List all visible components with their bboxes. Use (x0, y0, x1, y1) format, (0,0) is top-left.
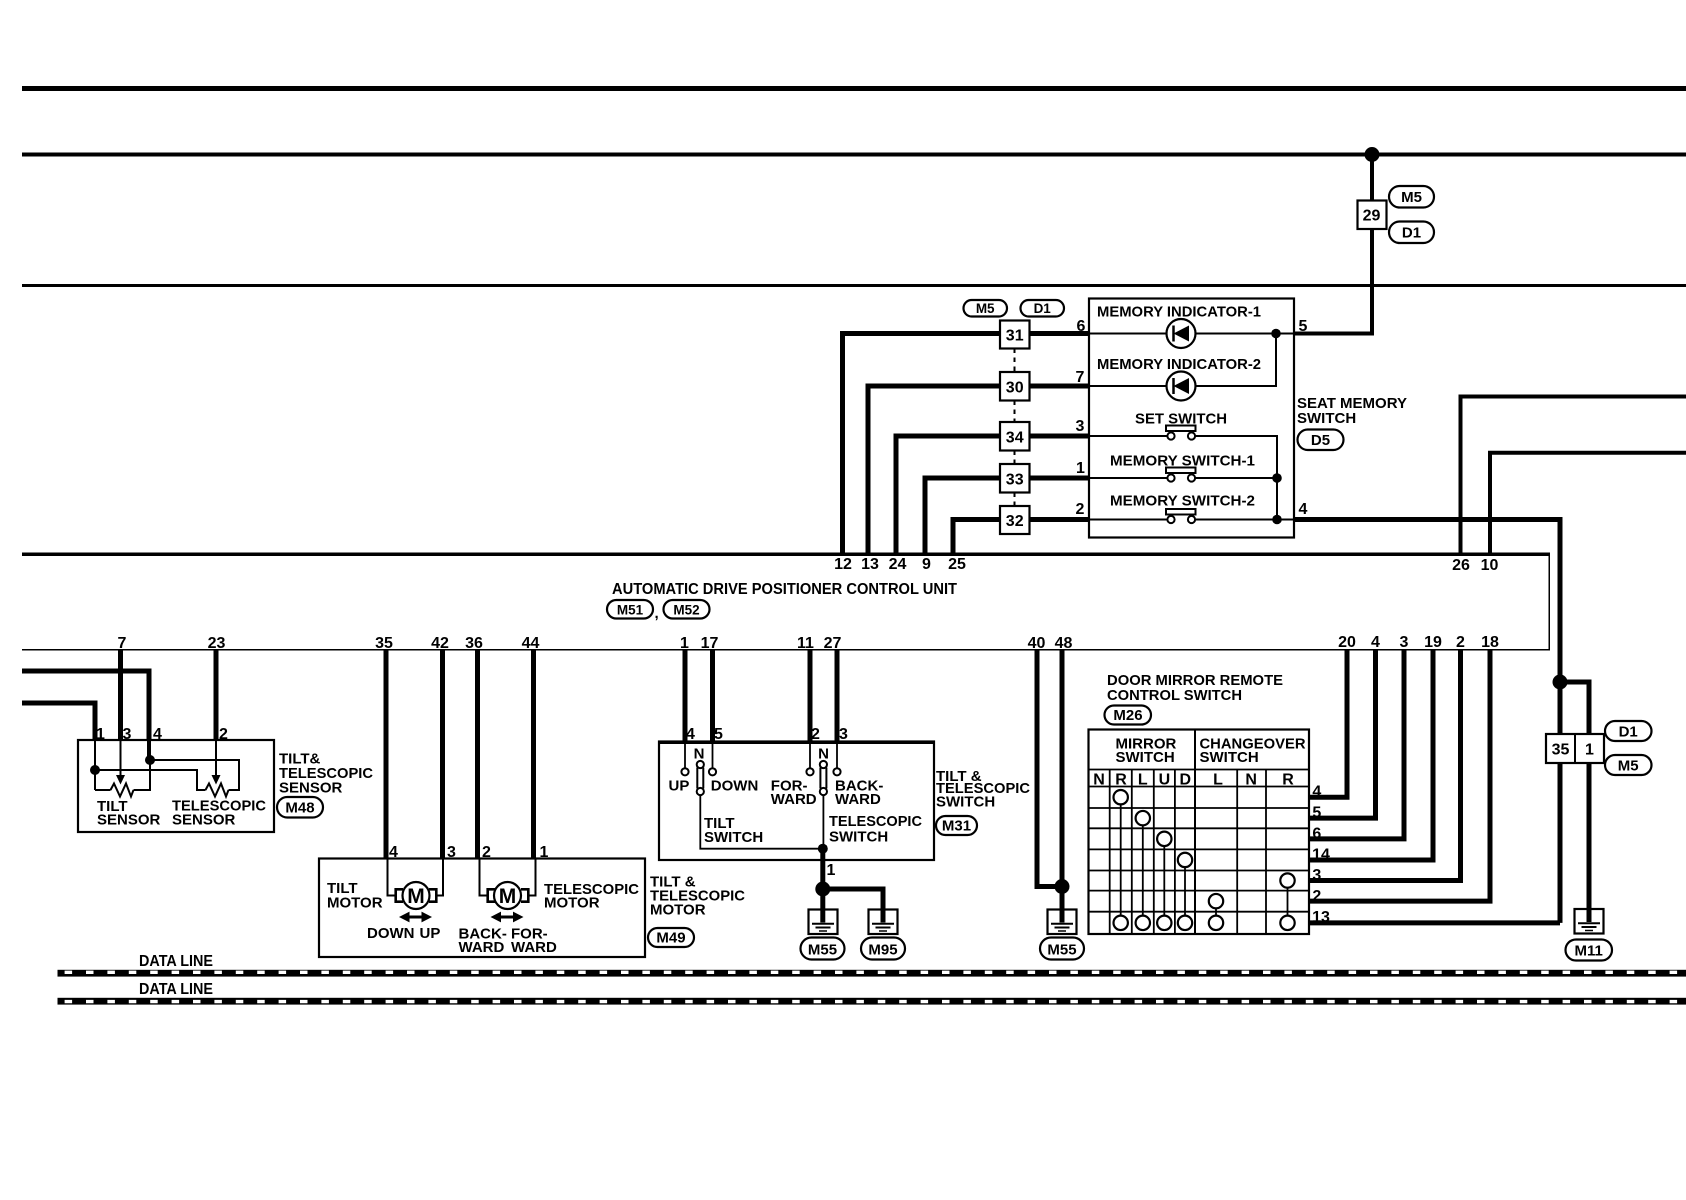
connector label M5 (top right of 29) (1389, 186, 1434, 208)
svg-text:29: 29 (1363, 208, 1381, 225)
connector 34 (1000, 422, 1030, 451)
svg-text:13: 13 (861, 556, 879, 573)
svg-text:M55: M55 (808, 942, 837, 959)
svg-text:D1: D1 (1619, 724, 1638, 741)
svg-text:4: 4 (1299, 501, 1308, 518)
wire: pin 26 to right edge (1461, 397, 1686, 554)
label: door mirror remote control switch (1107, 672, 1283, 704)
wire: tilt motor left lead (388, 859, 396, 896)
mirror switch contact column lines (1121, 804, 1288, 915)
label: down up (367, 925, 440, 942)
wire: telescopic motor left lead (480, 859, 488, 896)
wire: pin 18 to mirror switch row 2 (1309, 650, 1490, 901)
svg-text:40: 40 (1028, 635, 1046, 652)
automatic drive positioner control unit box M51/M52 (22, 554, 1550, 650)
svg-text:L: L (1213, 772, 1223, 789)
svg-text:36: 36 (465, 635, 483, 652)
wire: control unit pin 1 to tilt switch UP (683, 650, 688, 742)
svg-text:MEMORY INDICATOR-2: MEMORY INDICATOR-2 (1097, 356, 1261, 373)
label: changeover switch (1200, 736, 1306, 767)
connector label M49 (648, 928, 694, 947)
svg-text:M49: M49 (656, 930, 685, 947)
connector label M5 (above 31) (964, 300, 1008, 317)
svg-text:2: 2 (1456, 634, 1465, 651)
tilt motor direction arrow (399, 912, 432, 923)
wire: control unit pin 11 to telescopic switch FORWARD (808, 650, 813, 742)
label: tilt sensor (97, 798, 161, 829)
connector label D1 (1605, 721, 1652, 741)
wire: power bus line 2 (22, 153, 1686, 157)
DOWN contact (709, 768, 716, 775)
wire: control unit pin 40 to ground junction (1037, 650, 1062, 887)
telescopic switch lever (820, 761, 827, 795)
svg-text:D1: D1 (1402, 225, 1421, 242)
wire: pin 19 to mirror switch row 14 (1309, 650, 1433, 860)
label: telescopic motor (544, 881, 639, 912)
svg-text:26: 26 (1452, 557, 1470, 574)
svg-text:M11: M11 (1575, 943, 1603, 960)
wire: set switch row (pin 3) and common vertical (1089, 436, 1277, 520)
svg-text:SWITCH: SWITCH (704, 829, 763, 846)
wire: control unit pin 17 to tilt switch DOWN (710, 650, 715, 742)
wire: control unit pin 12 to connector 31 (843, 334, 1090, 554)
svg-text:3: 3 (1312, 867, 1321, 884)
node: memory switch-1 junction dot (1272, 473, 1282, 483)
wire: memory switch-2 row (pin 2 to pin 4) (1089, 519, 1294, 521)
svg-text:M48: M48 (285, 800, 314, 817)
wire: top power bus line 1 (22, 86, 1686, 91)
wire: switch pin 1 to ground junction (820, 849, 825, 923)
svg-text:U: U (1159, 772, 1171, 789)
tilt switch lever (697, 761, 704, 795)
svg-text:D1: D1 (1034, 301, 1052, 316)
contact circle row3 R (1280, 873, 1294, 887)
connector label M95 (861, 938, 905, 960)
svg-text:6: 6 (1312, 825, 1321, 842)
connector label M5 (1605, 755, 1652, 775)
svg-text:4: 4 (1312, 784, 1321, 801)
svg-text:WARD: WARD (835, 791, 881, 808)
svg-text:SWITCH: SWITCH (1116, 749, 1175, 766)
memory switch-1 (1166, 468, 1196, 482)
svg-text:2: 2 (1312, 888, 1321, 905)
node: pin 40/48 junction dot (1055, 879, 1070, 894)
wire: control unit pin 35 to tilt motor (384, 650, 389, 859)
wire: seat memory pin 4 ground line (1293, 520, 1560, 923)
connector label M55 (1040, 938, 1084, 960)
label: mirror switch (1116, 736, 1177, 767)
svg-text:N: N (1245, 772, 1257, 789)
svg-text:WARD: WARD (771, 791, 817, 808)
label: tilt & telescopic sensor (279, 751, 373, 797)
wire: DOWN contact lead (712, 743, 714, 768)
svg-text:25: 25 (948, 556, 966, 573)
wire: branch to ground M11 (1560, 682, 1589, 922)
label: tilt & telescopic switch (936, 768, 1030, 811)
column letters N R L U D L N R (1093, 772, 1294, 789)
svg-text:M31: M31 (942, 818, 971, 835)
svg-text:32: 32 (1006, 513, 1024, 530)
svg-text:48: 48 (1055, 635, 1073, 652)
wire: pin 2 to mirror switch row 3 (1309, 650, 1461, 881)
svg-text:M52: M52 (673, 603, 699, 618)
connector label D1 (bottom right of 29) (1389, 222, 1434, 244)
ground M95 (869, 910, 898, 935)
wire: control unit pin 25 to connector 32 (953, 520, 1089, 554)
wire: memory switch-1 row (pin 1) (1089, 477, 1277, 479)
memory switch-2 (1166, 509, 1196, 523)
label: seat memory switch (1297, 395, 1407, 427)
connector 33 (1000, 464, 1030, 493)
svg-text:M55: M55 (1047, 942, 1076, 959)
tilt & telescopic motor box M49 (319, 859, 645, 958)
connector label M31 (936, 816, 977, 835)
connector label M51 (607, 600, 653, 619)
svg-text:CONTROL SWITCH: CONTROL SWITCH (1107, 687, 1242, 704)
svg-text:MOTOR: MOTOR (544, 895, 600, 912)
label: tilt motor (327, 880, 383, 912)
svg-text:35: 35 (1552, 742, 1570, 759)
wire: control unit pin 24 to connector 34 (896, 436, 1089, 553)
svg-text:DATA LINE: DATA LINE (139, 953, 213, 970)
connector label M11 (1566, 940, 1613, 961)
wire: seat memory pin 7 row (memory indicator-2), joins indicator-1 output (1089, 334, 1276, 387)
svg-text:SET SWITCH: SET SWITCH (1135, 411, 1227, 428)
svg-text:1: 1 (1076, 460, 1085, 477)
svg-text:24: 24 (889, 556, 907, 573)
svg-text:M: M (407, 885, 425, 908)
svg-text:TELESCOPIC: TELESCOPIC (829, 813, 922, 830)
svg-text:2: 2 (1076, 501, 1085, 518)
tilt & telescopic switch box M31 (659, 742, 934, 861)
wire: pin 4 to tilt sensor right end (134, 760, 151, 790)
svg-text:M5: M5 (1618, 758, 1639, 775)
BACKWARD contact (833, 768, 840, 775)
wire: sensor pin 4 drop (147, 740, 151, 760)
label: tilt & telescopic motor (650, 874, 745, 919)
connector 30 (1000, 372, 1030, 401)
node: memory switch-2 junction dot (1272, 515, 1282, 525)
wire: control unit pin 27 to telescopic switch BACKWARD (835, 650, 840, 742)
wire: tilt switch common to junction (700, 795, 823, 849)
svg-text:WARD: WARD (511, 939, 557, 956)
svg-text:M: M (499, 885, 517, 908)
wire: control unit pin 23 to sensor pin 2 (214, 650, 219, 740)
wire: pin 10 to right edge (1490, 453, 1686, 553)
svg-text:5: 5 (1312, 805, 1321, 822)
svg-text:M5: M5 (1401, 189, 1422, 206)
svg-text:UP: UP (420, 925, 441, 942)
svg-text:23: 23 (208, 635, 226, 652)
tilt and telescopic sensor box M48 (78, 740, 274, 832)
svg-text:SWITCH: SWITCH (1200, 749, 1259, 766)
svg-text:9: 9 (922, 556, 931, 573)
wire: crossover from pin 1 to telescopic sensor left end (95, 770, 206, 790)
dashed link between connectors 31-30-34-33-32 (1014, 349, 1016, 507)
svg-text:SENSOR: SENSOR (172, 812, 236, 829)
svg-text:M95: M95 (868, 942, 897, 959)
svg-text:11: 11 (797, 635, 814, 652)
svg-text:7: 7 (1076, 369, 1085, 386)
connector label D5 (1298, 430, 1344, 451)
contact circle row6 U (1157, 832, 1171, 846)
svg-text:N: N (1093, 772, 1105, 789)
label: tilt switch (704, 815, 763, 846)
svg-text:1: 1 (680, 635, 689, 652)
svg-text:18: 18 (1481, 634, 1499, 651)
wire: BACKWARD contact lead (836, 743, 838, 768)
svg-text:10: 10 (1481, 557, 1499, 574)
connector 31 (1000, 321, 1030, 349)
svg-text:6: 6 (1077, 318, 1086, 335)
svg-text:34: 34 (1006, 430, 1024, 447)
wire: control unit pin 42 to tilt motor (440, 650, 445, 859)
ground M55 (door mirror) (1048, 910, 1077, 935)
label: back-ward (835, 778, 883, 809)
svg-text:DATA LINE: DATA LINE (139, 981, 213, 998)
svg-text:4: 4 (1371, 634, 1380, 651)
svg-text:SENSOR: SENSOR (279, 780, 343, 797)
svg-text:WARD: WARD (459, 939, 505, 956)
telescopic sensor wiper arrow (pin 2) (212, 740, 221, 785)
svg-text:5: 5 (1299, 318, 1308, 335)
contact circles row13 (1114, 916, 1295, 930)
wire: pin 20 to mirror switch row 4 (1309, 650, 1347, 797)
wire: UP contact lead (684, 743, 686, 768)
label: for-ward (771, 778, 817, 809)
tilt sensor wiper arrow (pin 3) (116, 740, 125, 785)
svg-text:R: R (1282, 772, 1294, 789)
seat memory switch box D5 (1089, 299, 1294, 538)
svg-text:3: 3 (1400, 634, 1409, 651)
svg-text:DOWN: DOWN (711, 778, 759, 795)
wire: left feed to sensor pin 4 (22, 671, 149, 740)
contact circle row14 D (1178, 853, 1192, 867)
telescopic motor M (488, 882, 529, 909)
connector label M55 (801, 938, 845, 960)
svg-text:N: N (818, 746, 829, 763)
telescopic motor direction arrow (491, 912, 524, 923)
node: switch common junction dot (818, 844, 828, 854)
contact circle row2 L (1209, 894, 1223, 908)
wire: tilt motor right lead (437, 859, 443, 896)
svg-text:SENSOR: SENSOR (97, 812, 161, 829)
tilt sensor resistor (95, 784, 134, 797)
svg-text:12: 12 (834, 556, 852, 573)
node: junction dot on bus line 2 (1365, 147, 1380, 162)
svg-text:AUTOMATIC DRIVE POSITIONER CON: AUTOMATIC DRIVE POSITIONER CONTROL UNIT (612, 581, 957, 598)
door mirror remote control switch table M26 (1089, 730, 1310, 935)
wire: control unit pin 48 to ground M55 (1060, 650, 1065, 923)
UP contact (681, 768, 688, 775)
svg-text:L: L (1138, 772, 1148, 789)
svg-text:,: , (655, 605, 659, 622)
connector 32 (1000, 506, 1030, 534)
svg-text:N: N (694, 746, 705, 763)
memory indicator-2 LED (1167, 372, 1196, 401)
connector 35 / 1 (1546, 734, 1604, 763)
wire: control unit pin 7 to sensor pin 3 (118, 650, 123, 740)
wire: FORWARD contact lead (809, 743, 811, 768)
wire: mirror switch row 13 to ground line (1309, 920, 1560, 925)
wire: crossover from pin 4 to telescopic sensor right end (150, 760, 239, 790)
svg-text:MEMORY INDICATOR-1: MEMORY INDICATOR-1 (1097, 304, 1261, 321)
wire: seat memory pin 6 row (memory indicator-1) (1089, 333, 1294, 335)
node: sensor pin 1 junction dot (90, 765, 100, 775)
connector label D1 (above 31) (1021, 300, 1065, 317)
svg-text:13: 13 (1312, 909, 1330, 926)
connector label M48 (277, 797, 323, 818)
wire: left feed to sensor pin 1 (22, 703, 95, 740)
svg-text:27: 27 (824, 635, 842, 652)
label: telescopic sensor (172, 798, 266, 829)
svg-text:M26: M26 (1113, 707, 1142, 724)
wire: branch to ground M95 (823, 889, 883, 923)
svg-text:20: 20 (1338, 634, 1356, 651)
data line bus 1 (58, 970, 1686, 977)
svg-text:SWITCH: SWITCH (829, 829, 888, 846)
svg-text:17: 17 (701, 635, 719, 652)
svg-text:UP: UP (669, 778, 690, 795)
contact circle row5 L (1136, 811, 1150, 825)
svg-text:42: 42 (431, 635, 449, 652)
svg-text:R: R (1115, 772, 1127, 789)
label: telescopic switch (829, 813, 922, 846)
wire: control unit pin 13 to connector 30 (868, 386, 1089, 553)
svg-text:MEMORY SWITCH-2: MEMORY SWITCH-2 (1110, 493, 1255, 510)
node: ground line junction dot (1553, 675, 1568, 690)
svg-text:SWITCH: SWITCH (1297, 410, 1356, 427)
svg-text:MOTOR: MOTOR (650, 902, 706, 919)
node: ground junction dot (815, 882, 830, 897)
svg-text:35: 35 (375, 635, 393, 652)
svg-text:MOTOR: MOTOR (327, 895, 383, 912)
connector 29 (1358, 201, 1387, 230)
svg-text:MEMORY SWITCH-1: MEMORY SWITCH-1 (1110, 453, 1255, 470)
svg-text:19: 19 (1424, 634, 1442, 651)
wire: pin 4 to mirror switch row 5 (1309, 650, 1376, 818)
connector label M52 (664, 600, 710, 619)
svg-text:D: D (1180, 772, 1192, 789)
svg-text:7: 7 (118, 635, 127, 652)
svg-text:1: 1 (1585, 742, 1594, 759)
FORWARD contact (806, 768, 813, 775)
telescopic sensor resistor (206, 784, 229, 797)
node: sensor pin 4 junction dot (145, 755, 155, 765)
ground M55 (809, 910, 838, 935)
svg-text:33: 33 (1006, 472, 1024, 489)
svg-text:31: 31 (1006, 328, 1024, 345)
label: back- for- ward ward (459, 926, 557, 957)
data line bus 2 (58, 998, 1686, 1005)
wire: from bus line 2 down through connector 29 to seat memory switch pin 5 (1293, 155, 1372, 334)
svg-text:3: 3 (1076, 418, 1085, 435)
svg-text:DOWN: DOWN (367, 925, 415, 942)
wire: telescopic switch common to junction (822, 795, 824, 849)
wire: pin 3 to mirror switch row 6 (1309, 650, 1404, 839)
svg-text:1: 1 (827, 862, 836, 879)
svg-text:SWITCH: SWITCH (936, 794, 995, 811)
wire: control unit pin 9 to connector 33 (925, 478, 1089, 553)
svg-text:M51: M51 (617, 603, 644, 618)
wire: sensor pin 1 drop (94, 740, 96, 790)
memory indicator-1 LED (1167, 319, 1196, 348)
svg-text:M5: M5 (976, 301, 995, 316)
connector label M26 (1105, 706, 1152, 725)
node: LED junction dot (1271, 329, 1281, 339)
set switch (1166, 426, 1196, 440)
contact circle row4 R (1114, 790, 1128, 804)
svg-text:44: 44 (522, 635, 540, 652)
wire: control unit pin 44 to telescopic motor (531, 650, 536, 859)
svg-text:D5: D5 (1311, 432, 1330, 449)
wire: telescopic motor right lead (529, 859, 536, 896)
tilt motor M (396, 882, 437, 909)
svg-text:14: 14 (1312, 846, 1330, 863)
ground M11 (1575, 909, 1604, 934)
wire: power bus line 3 (22, 284, 1686, 287)
wire: control unit pin 36 to telescopic motor (475, 650, 480, 859)
svg-text:30: 30 (1006, 380, 1024, 397)
